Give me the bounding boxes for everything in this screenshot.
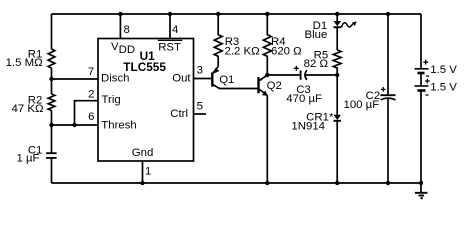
wire top rail <box>52 13 422 15</box>
resistor R4 <box>263 12 302 75</box>
svg-text:1.5 MΩ: 1.5 MΩ <box>6 57 43 69</box>
wire pin5 Ctrl stub <box>194 100 207 114</box>
wire pin3 Out <box>194 65 212 79</box>
svg-text:1.5 V: 1.5 V <box>430 81 457 93</box>
op-amp U1 TLC555 box <box>98 39 194 162</box>
resistor R3 <box>214 12 260 67</box>
diode CR1 <box>291 75 341 185</box>
svg-text:6: 6 <box>88 111 94 123</box>
svg-text:Out: Out <box>172 73 191 85</box>
svg-text:470 µF: 470 µF <box>286 93 322 105</box>
wire pin4 <box>168 12 179 39</box>
wire bottom rail <box>52 182 422 184</box>
svg-text:Blue: Blue <box>304 29 327 41</box>
svg-text:Trig: Trig <box>102 94 121 106</box>
svg-text:DD: DD <box>119 44 135 56</box>
svg-text:7: 7 <box>88 66 94 78</box>
wire pin7 Disch <box>52 78 99 80</box>
ground <box>415 181 428 198</box>
node Thresh junction <box>49 123 53 127</box>
wire pin6 Thresh <box>52 124 99 126</box>
svg-text:47 KΩ: 47 KΩ <box>12 103 44 115</box>
svg-text:Thresh: Thresh <box>101 120 136 132</box>
svg-text:Q2: Q2 <box>267 80 282 92</box>
svg-text:620 Ω: 620 Ω <box>271 46 302 58</box>
svg-text:Ctrl: Ctrl <box>170 108 188 120</box>
svg-text:1N914: 1N914 <box>291 120 325 132</box>
capacitor C3 <box>286 66 322 105</box>
transistor Q2 <box>259 75 282 185</box>
svg-text:2.2 KΩ: 2.2 KΩ <box>225 46 261 58</box>
capacitor C1 <box>16 144 56 164</box>
capacitor C2 <box>344 12 396 185</box>
wire pin2 Trig <box>75 101 99 125</box>
svg-text:82 Ω: 82 Ω <box>304 58 329 70</box>
node Disch junction <box>49 77 53 81</box>
wire C3 right <box>306 74 338 76</box>
transistor Q1 <box>212 67 258 89</box>
svg-text:2: 2 <box>88 89 94 101</box>
node R4/Q2/C3 junction <box>265 73 269 77</box>
node Trig junction <box>72 123 76 127</box>
resistor R1 <box>6 49 55 69</box>
svg-text:1: 1 <box>145 165 151 177</box>
svg-text:Q1: Q1 <box>219 74 234 86</box>
resistor R2 <box>12 94 55 115</box>
wire C3 left <box>267 74 300 76</box>
svg-text:1.5 V: 1.5 V <box>430 64 457 76</box>
wire left column segments <box>51 14 53 183</box>
svg-text:Gnd: Gnd <box>132 147 154 159</box>
svg-text:RST: RST <box>158 42 181 54</box>
svg-text:3: 3 <box>197 65 203 77</box>
node C3/R5/CR1 junction <box>335 73 339 77</box>
svg-text:8: 8 <box>124 24 130 36</box>
battery B1 <box>415 14 458 183</box>
svg-text:TLC555: TLC555 <box>123 60 166 74</box>
resistor R5 <box>304 49 341 75</box>
svg-text:1 µF: 1 µF <box>16 152 39 164</box>
wire pin8 <box>118 12 130 39</box>
svg-text:100 µF: 100 µF <box>344 99 380 111</box>
svg-text:Disch: Disch <box>101 73 129 85</box>
svg-text:4: 4 <box>172 24 178 36</box>
wire pin1 Gnd <box>140 161 151 185</box>
LED D1 <box>304 12 356 50</box>
svg-text:5: 5 <box>197 100 203 112</box>
